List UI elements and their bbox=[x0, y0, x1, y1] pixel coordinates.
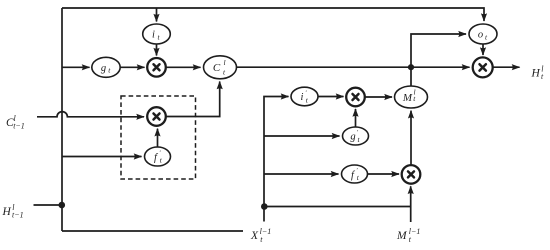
wire: C_t^l output line to final multiplier X5 bbox=[237, 66, 470, 68]
wire: o_t down to final multiplier X5 bbox=[482, 44, 484, 55]
wire: X bus to f'_t (right) bbox=[264, 173, 339, 175]
svg-text:M: M bbox=[396, 230, 408, 242]
cell node C_t^l bbox=[204, 56, 237, 79]
wire: f'_t (left) up to multiplier X2 bbox=[157, 129, 159, 147]
gate i'_t bbox=[291, 87, 318, 106]
node junction dot where M branch meets C line bbox=[408, 64, 414, 70]
wire: final multiplier X5 to H_t^l output bbox=[493, 66, 519, 68]
wire: multiplier X2 output up into C_t^l bbox=[166, 82, 220, 117]
wire: g'_t up to multiplier X3 bbox=[355, 109, 357, 127]
gate i_t bbox=[143, 24, 171, 44]
wire: X_t^{l-1} vertical bus up to i'_t bbox=[264, 97, 289, 222]
wire: M_t^{l-1} input up to multiplier X4 bbox=[410, 186, 412, 222]
svg-text:i: i bbox=[301, 92, 304, 103]
wire: left vertical bus bbox=[61, 8, 63, 231]
gate g_t bbox=[92, 57, 120, 77]
node label M_t^{l-1} bbox=[396, 227, 420, 244]
node junction dot on X bus bbox=[261, 203, 268, 210]
gate o_t bbox=[469, 24, 497, 44]
svg-text:C: C bbox=[213, 62, 221, 74]
wire: g_t to multiplier X1 bbox=[120, 66, 145, 68]
node label X_t^{l-1} bbox=[250, 227, 271, 244]
node label H_t^l (output) bbox=[531, 64, 545, 81]
gate f'_t (left, in dashed box) bbox=[145, 147, 171, 166]
multiplier X5 (output) bbox=[473, 57, 493, 77]
wire: bottom line toward X_t^{l-1} bbox=[62, 230, 243, 232]
multiplier X3 bbox=[346, 88, 365, 107]
wire: f'_t (right) to multiplier X4 bbox=[368, 173, 400, 175]
wire: left bus to g_t bbox=[62, 66, 90, 68]
node label C_{t-1}^l bbox=[6, 114, 25, 131]
multiplier X2 (in dashed box) bbox=[147, 107, 166, 126]
svg-text:t: t bbox=[541, 72, 544, 81]
svg-text:H: H bbox=[531, 68, 541, 80]
gate g'_t bbox=[343, 127, 369, 145]
wire: M_t^l up through junction then right into o_t bbox=[411, 34, 466, 86]
svg-text:i: i bbox=[152, 30, 155, 41]
svg-text:g: g bbox=[101, 63, 106, 74]
node label H_{t-1}^l bbox=[2, 203, 24, 220]
wire: H_{t-1}^l input to left bus bbox=[34, 204, 62, 206]
multiplier X1 bbox=[147, 58, 166, 77]
svg-text:H: H bbox=[2, 206, 12, 218]
wire: i_t down to multiplier X1 bbox=[156, 44, 158, 55]
multiplier X4 bbox=[402, 165, 421, 184]
wire: left bus to f'_t (left) bbox=[62, 156, 142, 158]
wire: multiplier X4 up into M_t^l bbox=[410, 111, 412, 165]
svg-text:t−1: t−1 bbox=[13, 122, 25, 131]
wire: i'_t to multiplier X3 bbox=[318, 96, 344, 98]
wire: multiplier X1 to C_t^l bbox=[166, 66, 201, 68]
wire: drop from top bus into i_t bbox=[156, 8, 158, 22]
dashed box around forget sub-block bbox=[121, 96, 196, 179]
node junction dot H_{t-1} on left bus bbox=[59, 202, 66, 209]
svg-text:o: o bbox=[478, 30, 483, 41]
svg-text:X: X bbox=[250, 230, 259, 242]
svg-text:t−1: t−1 bbox=[12, 211, 24, 220]
svg-text:M: M bbox=[402, 92, 413, 104]
svg-text:l: l bbox=[223, 58, 225, 67]
wire: multiplier X3 to M_t^l bbox=[365, 96, 392, 98]
gate f'_t (right) bbox=[342, 165, 368, 183]
wire: X bus to g'_t bbox=[264, 135, 340, 137]
wire: top bus from left vertical to o_t drop bbox=[62, 8, 484, 21]
memory node M_t^l bbox=[395, 86, 428, 108]
wire: C_{t-1}^l input with hop over left bus bbox=[37, 112, 144, 117]
wire: X bus junction across to M_{t-1} vertical bbox=[264, 206, 411, 208]
svg-text:g: g bbox=[350, 132, 355, 143]
